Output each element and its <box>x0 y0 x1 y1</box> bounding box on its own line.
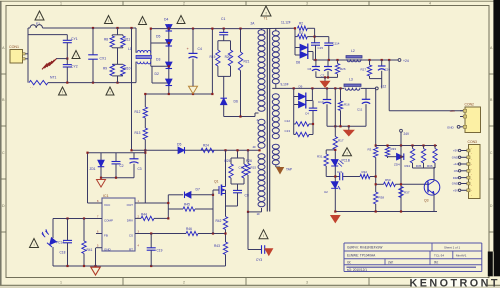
svg-text:CY2: CY2 <box>71 64 78 68</box>
svg-text:C3: C3 <box>138 167 142 171</box>
svg-text:R33: R33 <box>391 147 397 151</box>
svg-text:+24: +24 <box>450 109 455 113</box>
svg-text:R19: R19 <box>210 55 216 59</box>
svg-text:3: 3 <box>306 1 308 5</box>
svg-text:D2: D2 <box>155 72 159 76</box>
svg-text:tM:: tM: <box>434 260 439 264</box>
svg-text:CS: CS <box>129 234 133 238</box>
svg-text:R36: R36 <box>427 164 433 168</box>
svg-text:TAP: TAP <box>286 168 292 172</box>
svg-text:C2: C2 <box>120 164 124 168</box>
svg-text:D4: D4 <box>164 18 168 22</box>
svg-text:R50: R50 <box>385 178 391 182</box>
svg-text:R12: R12 <box>135 110 141 114</box>
svg-text:- .: - . <box>30 85 33 89</box>
svg-text:R3: R3 <box>299 31 303 35</box>
svg-text:D: D <box>490 204 493 208</box>
svg-text:RT: RT <box>129 248 133 252</box>
svg-text:R32: R32 <box>362 170 368 174</box>
svg-text:DIM: DIM <box>453 176 459 180</box>
svg-text:C12: C12 <box>285 119 291 123</box>
svg-text:C: C <box>490 151 493 155</box>
svg-text:11,12F: 11,12F <box>281 20 291 24</box>
svg-text:C4: C4 <box>305 112 309 116</box>
svg-text:R43: R43 <box>214 244 220 248</box>
svg-text:C18: C18 <box>60 251 66 255</box>
svg-text:ZD4: ZD4 <box>394 163 400 167</box>
svg-text:D9: D9 <box>299 84 303 88</box>
svg-text:D5: D5 <box>156 35 160 39</box>
svg-text:L3: L3 <box>349 78 353 82</box>
svg-text:R46: R46 <box>186 227 192 231</box>
svg-text:C1: C1 <box>221 17 225 21</box>
svg-text:Q1: Q1 <box>214 180 219 184</box>
svg-text:R44: R44 <box>141 212 147 216</box>
svg-text:-: - <box>471 173 472 177</box>
svg-text:R45: R45 <box>184 202 190 206</box>
svg-text:3: 3 <box>306 280 308 284</box>
svg-text:C13: C13 <box>285 129 291 133</box>
svg-text:+5V: +5V <box>453 189 458 193</box>
svg-text:ZD1: ZD1 <box>90 167 96 171</box>
svg-text:C10: C10 <box>318 100 324 104</box>
svg-text:C6: C6 <box>308 67 312 71</box>
svg-text:9,10F: 9,10F <box>281 83 289 87</box>
svg-text:C19: C19 <box>157 249 163 253</box>
svg-text:!: ! <box>263 233 264 238</box>
svg-text:-: - <box>471 193 472 197</box>
svg-text:D: D <box>2 204 5 208</box>
svg-text:NT1: NT1 <box>50 75 57 79</box>
svg-text:CY1: CY1 <box>71 37 78 41</box>
svg-text:VCC: VCC <box>104 203 111 207</box>
svg-text:R21: R21 <box>244 60 250 64</box>
svg-text:D7: D7 <box>196 187 200 191</box>
svg-text:DRV: DRV <box>127 219 133 223</box>
svg-text:C17: C17 <box>239 166 245 170</box>
svg-text:CON3: CON3 <box>468 140 478 144</box>
svg-text:R9: R9 <box>103 67 107 71</box>
svg-text:1: 1 <box>60 1 62 5</box>
svg-text:!: ! <box>180 18 181 23</box>
svg-text:!: ! <box>39 15 40 20</box>
svg-text:D8: D8 <box>296 61 300 65</box>
svg-text:C15: C15 <box>318 46 324 50</box>
svg-text:R34: R34 <box>405 164 411 168</box>
svg-text:FB: FB <box>104 234 108 238</box>
svg-text:CY3: CY3 <box>256 258 262 262</box>
svg-text:R17: R17 <box>338 139 344 143</box>
svg-text:-: - <box>471 167 472 171</box>
svg-text:4F: 4F <box>253 145 257 149</box>
svg-text:R11: R11 <box>125 38 131 42</box>
svg-text:-: - <box>471 183 472 187</box>
svg-text:D5: D5 <box>177 143 181 147</box>
svg-text:!: ! <box>108 18 109 23</box>
svg-text:OUT: OUT <box>127 203 134 207</box>
svg-text:!: ! <box>346 150 347 155</box>
svg-text:D3: D3 <box>156 58 160 62</box>
svg-text:-: - <box>471 152 472 156</box>
svg-text:GND: GND <box>452 182 458 186</box>
svg-text:-: - <box>471 157 472 161</box>
svg-text:IC1: IC1 <box>103 194 109 198</box>
svg-text:Sheet 1 of 1: Sheet 1 of 1 <box>444 246 461 250</box>
svg-text:GND: GND <box>452 156 458 160</box>
svg-text:R13: R13 <box>135 131 141 135</box>
svg-text:+5V: +5V <box>453 149 458 153</box>
svg-text:KENOTRONTV: KENOTRONTV <box>410 278 500 288</box>
svg-text:-: - <box>471 162 472 166</box>
svg-text:R26: R26 <box>246 159 252 163</box>
svg-text:sG: 2010/12/1: sG: 2010/12/1 <box>347 268 367 272</box>
svg-text:C: C <box>2 151 5 155</box>
svg-text:R24: R24 <box>203 143 209 147</box>
svg-text:PC1B: PC1B <box>342 159 350 163</box>
svg-text:+12: +12 <box>453 162 458 166</box>
svg-text:!: ! <box>265 11 266 16</box>
svg-text:-: - <box>471 147 472 151</box>
svg-text:GND: GND <box>104 248 112 252</box>
svg-text:R35: R35 <box>416 164 422 168</box>
svg-text:2: 2 <box>183 280 185 284</box>
svg-text:GND: GND <box>447 125 455 129</box>
svg-text:R25: R25 <box>225 159 231 163</box>
svg-text:C11: C11 <box>357 108 363 112</box>
svg-text:C114: C114 <box>333 42 340 46</box>
svg-text:R31: R31 <box>317 155 323 159</box>
svg-text:1: 1 <box>60 280 62 284</box>
svg-text:R37: R37 <box>404 191 410 195</box>
svg-text:+24: +24 <box>403 59 409 63</box>
svg-text:R15: R15 <box>251 166 257 170</box>
svg-text:Q3: Q3 <box>424 199 429 203</box>
svg-text:R2: R2 <box>299 22 303 26</box>
svg-text:CON1: CON1 <box>9 45 19 49</box>
svg-text:R42: R42 <box>216 219 222 223</box>
svg-text:CX1: CX1 <box>100 57 107 61</box>
svg-text:D6: D6 <box>234 100 238 104</box>
svg-text:EsNWE: TP1040AA: EsNWE: TP1040AA <box>347 253 376 257</box>
svg-text:CON2: CON2 <box>465 102 475 106</box>
svg-text:R41: R41 <box>87 248 93 252</box>
svg-text:R27: R27 <box>361 67 367 71</box>
svg-text:R10: R10 <box>125 67 131 71</box>
svg-text:+12: +12 <box>381 84 387 88</box>
svg-text:1F: 1F <box>257 212 261 216</box>
svg-text:R38: R38 <box>379 196 385 200</box>
svg-text:ON: ON <box>454 169 458 173</box>
svg-text:Gt:: Gt: <box>347 260 351 264</box>
svg-text:-: - <box>471 188 472 192</box>
svg-text:T1: T1 <box>264 17 268 21</box>
svg-text:2: 2 <box>183 1 185 5</box>
svg-text:COMP: COMP <box>104 219 113 223</box>
svg-text:L2: L2 <box>351 49 355 53</box>
svg-text:!: ! <box>142 19 143 24</box>
svg-text:U2: U2 <box>324 190 328 194</box>
svg-text:MmAV1: MmAV1 <box>456 253 467 257</box>
svg-text:!: ! <box>33 242 34 247</box>
svg-text:TCL-34: TCL-34 <box>434 253 444 257</box>
svg-text:!: ! <box>109 90 110 95</box>
svg-text:R8: R8 <box>104 38 108 42</box>
svg-text:!: ! <box>75 53 76 58</box>
svg-text:R16: R16 <box>344 103 350 107</box>
svg-text:R3: R3 <box>368 148 372 152</box>
svg-text:C21: C21 <box>337 170 343 174</box>
svg-text:C4: C4 <box>198 47 202 51</box>
svg-text:R26: R26 <box>340 67 346 71</box>
svg-text:24V: 24V <box>404 132 411 136</box>
svg-text:sW:: sW: <box>388 260 394 264</box>
svg-text:R20: R20 <box>225 55 231 59</box>
svg-text:!: ! <box>62 90 63 95</box>
svg-text:GsRFm: RmEsNtEFxSW: GsRFm: RmEsNtEFxSW <box>347 246 382 250</box>
svg-text:-: - <box>471 178 472 182</box>
svg-text:4: 4 <box>429 1 431 5</box>
